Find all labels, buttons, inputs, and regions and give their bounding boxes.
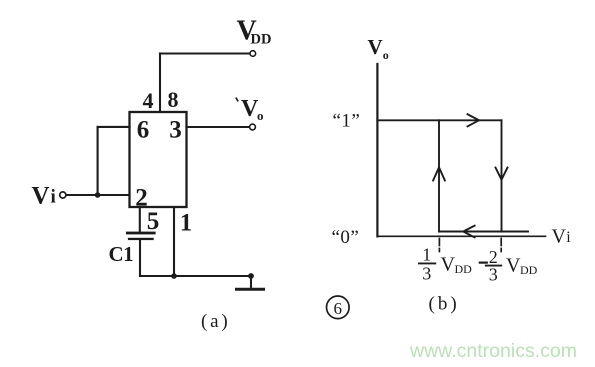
svg-text:i: i xyxy=(566,229,571,246)
label Vo (graph axis) xyxy=(368,35,389,62)
wire VDD vertical (pins 4,8 to rail) xyxy=(159,54,161,113)
axis Vi horizontal (graph b) xyxy=(377,235,545,237)
capacitor C1 top plate xyxy=(126,232,156,235)
svg-text:DD: DD xyxy=(520,263,538,277)
svg-text:3: 3 xyxy=(489,265,498,285)
terminal Vo xyxy=(250,124,256,130)
svg-text:8: 8 xyxy=(168,87,179,112)
capacitor C1 bottom plate xyxy=(128,238,154,240)
svg-text:6: 6 xyxy=(137,116,150,143)
IC U1 (555 timer) body xyxy=(130,112,187,207)
wire pin 1 to ground rail xyxy=(173,207,175,276)
output high level line xyxy=(377,119,501,121)
circle of figure number 6 xyxy=(327,296,350,319)
label Vi (circuit input) xyxy=(32,182,56,209)
wire feedback vertical xyxy=(97,127,99,195)
svg-text:1: 1 xyxy=(180,209,193,236)
svg-text:5: 5 xyxy=(147,208,160,235)
junction pin1/ground rail xyxy=(171,273,177,279)
arrow down on falling line xyxy=(496,168,508,180)
output low level line xyxy=(439,231,528,233)
svg-text:C1: C1 xyxy=(109,242,134,266)
svg-text:DD: DD xyxy=(251,32,272,48)
svg-text:DD: DD xyxy=(455,262,473,276)
arrow right on high line xyxy=(468,114,480,126)
svg-text:3: 3 xyxy=(422,264,431,284)
svg-text:1: 1 xyxy=(422,244,431,264)
dashed tick below axis at 2/3 VDD xyxy=(500,239,502,252)
wire pin 3 output xyxy=(187,126,250,128)
ground symbol xyxy=(237,273,264,289)
svg-text:V: V xyxy=(552,226,567,248)
terminal Vi xyxy=(60,192,66,198)
svg-text:V: V xyxy=(506,255,521,277)
falling transition vertical line at 2/3 VDD xyxy=(501,120,503,231)
svg-text:6: 6 xyxy=(334,299,343,318)
axis Vo vertical (graph b) xyxy=(376,64,378,236)
dash between threshold labels xyxy=(480,262,487,264)
arrow left on low line xyxy=(463,226,474,238)
fraction bar 2/3 xyxy=(486,265,501,267)
wire pin 5 to capacitor C1 xyxy=(139,207,141,232)
svg-text:4: 4 xyxy=(143,88,154,113)
label Vi (graph axis) xyxy=(552,226,572,248)
fraction bar 1/3 xyxy=(419,262,435,264)
svg-text:“0”: “0” xyxy=(332,227,360,248)
label 2/3 VDD xyxy=(489,247,538,285)
terminal VDD xyxy=(250,51,256,57)
svg-text:“1”: “1” xyxy=(333,111,361,132)
svg-text:o: o xyxy=(257,108,264,123)
svg-text:V: V xyxy=(441,254,456,276)
wire C1 to ground rail xyxy=(139,240,141,276)
label 1/3 VDD xyxy=(422,244,472,283)
svg-text:(b): (b) xyxy=(429,293,460,314)
wire feedback horizontal to pin 6 xyxy=(98,126,130,128)
dashed tick below axis at 1/3 VDD xyxy=(438,239,440,252)
svg-text:o: o xyxy=(383,48,389,62)
wire Vi input to pin 2 xyxy=(66,194,129,196)
svg-text:(a): (a) xyxy=(201,311,231,332)
wire ground rail horizontal xyxy=(140,275,251,277)
tick mark before Vo label xyxy=(236,98,238,101)
label Vo (circuit output) xyxy=(241,96,264,123)
arrow up on rising line xyxy=(433,167,445,180)
svg-text:V: V xyxy=(368,35,383,59)
svg-text:3: 3 xyxy=(169,116,182,143)
rising transition vertical line at 1/3 VDD xyxy=(438,120,440,231)
svg-text:i: i xyxy=(51,186,56,207)
wire VDD horizontal rail xyxy=(160,52,250,54)
junction node input/feedback xyxy=(95,192,101,198)
svg-text:V: V xyxy=(32,182,50,209)
label VDD (top) xyxy=(237,16,272,48)
svg-text:www.cntronics.com: www.cntronics.com xyxy=(409,340,577,362)
